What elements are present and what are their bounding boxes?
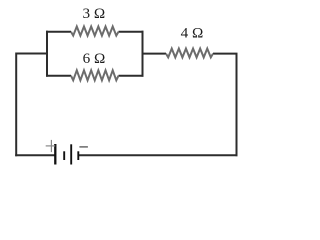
node: parallel box left bar (46, 31, 48, 77)
wire: bottom branch left lead (46, 75, 71, 77)
wire: bottom branch right lead (119, 75, 144, 77)
wire: top branch right lead (119, 31, 144, 33)
battery B1 plate short (63, 151, 65, 160)
svg-text:3 Ω: 3 Ω (82, 5, 105, 22)
svg-text:6 Ω: 6 Ω (83, 50, 106, 67)
wire: top branch left lead (46, 31, 71, 33)
wire: right branch right lead (213, 53, 238, 55)
wire: right branch left lead (143, 53, 167, 55)
resistor R3 4ohm zigzag (166, 49, 213, 58)
wire: left vertical (15, 53, 17, 157)
battery B1 plate short right (77, 151, 79, 160)
battery B1 plate long left (54, 144, 56, 165)
battery positive sign (46, 140, 56, 152)
wire: bottom left segment (15, 154, 55, 156)
wire: right vertical (236, 54, 238, 157)
svg-text:4 Ω: 4 Ω (181, 25, 204, 42)
resistor R2 6ohm zigzag (71, 70, 119, 80)
wire: left mid junction horizontal (16, 53, 47, 55)
battery B1 plate long right (70, 144, 72, 164)
wire: bottom right segment (78, 154, 237, 156)
battery negative sign (79, 146, 88, 148)
resistor R1 3ohm zigzag (71, 27, 119, 36)
node: parallel box right bar (142, 31, 144, 77)
